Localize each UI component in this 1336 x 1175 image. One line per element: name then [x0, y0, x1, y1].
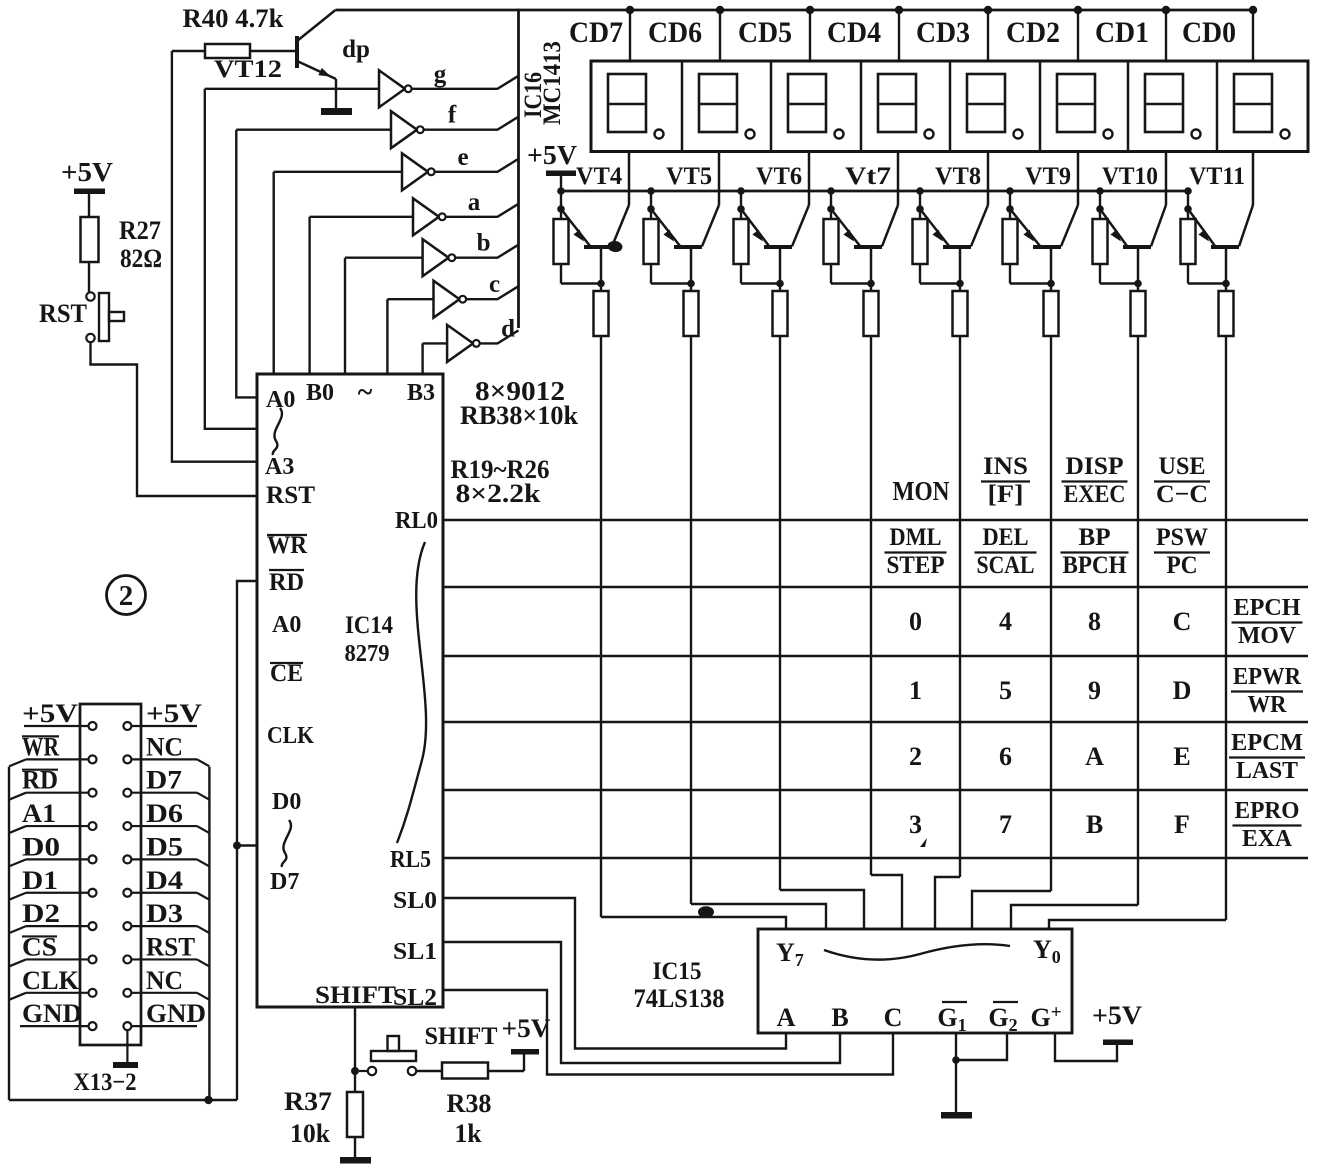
svg-text:BPCH: BPCH [1063, 552, 1128, 579]
node rail dot VT5 [647, 187, 655, 195]
svg-text:WR: WR [1248, 692, 1288, 718]
node rail dot VT4 [557, 187, 565, 195]
svg-text:SHIFT: SHIFT [315, 982, 396, 1009]
wire drop to display CD2 [1077, 10, 1079, 61]
connector pin right GND [123, 1022, 131, 1030]
svg-text:c: c [489, 271, 500, 298]
wire pin RST [131, 958, 197, 960]
svg-text:g: g [434, 61, 447, 88]
svg-text:LAST: LAST [1236, 758, 1298, 784]
wire output of b to bus [455, 245, 518, 258]
svg-text:CD5: CD5 [738, 16, 792, 49]
seven-segment digit of CD1 [1145, 74, 1183, 132]
svg-text:CD0: CD0 [1182, 16, 1236, 49]
node emitter junction VT10 [1096, 205, 1104, 213]
svg-text:B0: B0 [306, 380, 334, 406]
svg-text:+5V: +5V [1092, 1001, 1142, 1030]
wire riser B3 to d [421, 343, 423, 374]
svg-text:NC: NC [146, 732, 183, 761]
svg-text:D2: D2 [22, 899, 60, 928]
svg-text:MON: MON [893, 476, 950, 506]
node rail dot VT9 [1006, 187, 1014, 195]
connector pin right D6 [123, 822, 131, 830]
pin label RD (overline) [269, 569, 304, 596]
wire pin WR [26, 758, 89, 760]
wire pin CS [26, 958, 89, 960]
resistor R20 2.2k series base resistor VT5 [684, 284, 699, 337]
svg-text:EPCM: EPCM [1231, 730, 1303, 756]
wire emitter node VT4 [560, 191, 562, 209]
wire keyboard row RL3 [443, 721, 1308, 724]
svg-text:CD2: CD2 [1006, 16, 1060, 49]
svg-text:DEL: DEL [983, 524, 1029, 551]
wire riser to e [273, 172, 275, 374]
transistor VT9 9012 PNP [1010, 152, 1078, 284]
resistor R22 2.2k series base resistor Vt7 [864, 284, 879, 337]
node rail junction above CD5 [806, 6, 814, 14]
display cell separator [1127, 61, 1130, 152]
ground below G1 G2 [941, 1112, 972, 1119]
node rail junction above CD1 [1162, 6, 1170, 14]
wire cable bundle bottom [9, 1099, 237, 1101]
wire input of e [274, 171, 402, 173]
wire pin GND [20, 1025, 89, 1027]
connector pin right D4 [123, 889, 131, 897]
display cell separator [681, 61, 684, 152]
wire keyboard row RL1 [443, 586, 1308, 589]
squiggle A0..A3 [273, 408, 282, 455]
svg-text:BP: BP [1079, 524, 1111, 551]
svg-text:CD3: CD3 [916, 16, 970, 49]
resistor R25 2.2k series base resistor VT10 [1131, 284, 1146, 337]
wire cable entry left D1 [9, 893, 26, 900]
svg-text:SL1: SL1 [393, 939, 437, 965]
seven-segment digit of CD5 [788, 74, 826, 132]
resistor RB38 10k pullup for VT5 [644, 209, 692, 284]
svg-text:A: A [777, 1003, 796, 1032]
decimal point of CD2 [1104, 130, 1113, 139]
node base junction VT6 [776, 280, 784, 288]
svg-text:USE: USE [1159, 453, 1206, 480]
key EPCH/MOV [1232, 595, 1303, 649]
label R37 10k [284, 1087, 332, 1148]
wire keyboard row RL5 [443, 857, 1308, 860]
resistor RB38 10k pullup for VT10 [1093, 209, 1139, 284]
inverter driver g (IC16) [379, 70, 412, 107]
svg-text:EXA: EXA [1242, 826, 1293, 852]
connector pin left +5V [89, 722, 97, 730]
wire segment bus vertical [517, 9, 520, 328]
node rail dot VT11 [1184, 187, 1192, 195]
wire pin RD [26, 792, 89, 794]
display module outer box [591, 61, 1308, 152]
label R19~R26 8x2.2k [451, 455, 550, 508]
wire drop to display CD3 [987, 10, 989, 61]
seven-segment digit of CD4 [878, 74, 916, 132]
connector pin left A1 [89, 822, 97, 830]
svg-text:CLK: CLK [22, 966, 80, 995]
svg-text:D: D [1173, 676, 1192, 705]
node rail dot VT6 [737, 187, 745, 195]
wire drop to display CD7 [629, 10, 631, 61]
key DEL/SCAL [975, 524, 1037, 579]
svg-text:B: B [1086, 810, 1103, 839]
resistor R24 2.2k series base resistor VT9 [1044, 284, 1059, 337]
svg-text:8×2.2k: 8×2.2k [456, 479, 542, 508]
wire pin D6 [131, 825, 197, 827]
svg-text:X13−2: X13−2 [74, 1069, 137, 1096]
svg-text:3: 3 [909, 810, 922, 839]
decimal point of CD4 [925, 130, 934, 139]
svg-text:SHIFT: SHIFT [425, 1023, 498, 1050]
label 8x9012 RB38x10k [460, 376, 579, 430]
wire cable entry left CS [9, 959, 26, 966]
connector pin right RST [123, 955, 131, 963]
+5V supply for R38 [502, 1014, 551, 1055]
wire keyboard/scan column 6 from VT10 [1137, 336, 1139, 905]
transistor VT5 9012 PNP [651, 152, 719, 284]
wire G+ to +5V [1055, 1033, 1117, 1061]
label GND left [22, 999, 82, 1028]
wire emitter node VT10 [1099, 191, 1101, 209]
svg-text:74LS138: 74LS138 [634, 984, 725, 1013]
pin label CE (overline) [270, 660, 303, 687]
ink blob artifact on Y7 wire [698, 906, 714, 918]
svg-text:~: ~ [358, 377, 373, 408]
svg-text:1: 1 [909, 676, 922, 705]
IC15 74LS138 decoder box [758, 929, 1072, 1033]
wire cable entry right NC [197, 993, 209, 1000]
svg-text:dp: dp [342, 36, 370, 63]
pin label G2 (overline) [988, 1002, 1018, 1035]
node emitter junction VT6 [737, 205, 745, 213]
squiggle RL0..RL5 [397, 542, 426, 843]
inverter driver f (IC16) [391, 111, 424, 148]
transistor Vt7 9012 PNP [831, 152, 898, 284]
svg-text:R27: R27 [119, 216, 161, 245]
wire pin A1 [26, 825, 89, 827]
wire cable bundle left [8, 767, 10, 1100]
wire pin D1 [26, 892, 89, 894]
seven-segment digit of CD7 [608, 74, 646, 132]
svg-text:D0: D0 [272, 789, 301, 815]
svg-text:8279: 8279 [345, 641, 390, 667]
wire cable entry left D2 [9, 926, 26, 933]
decimal point of CD0 [1281, 130, 1290, 139]
wire drop to display CD5 [809, 10, 811, 61]
wire input of b [345, 257, 423, 259]
wire cable entry right D7 [197, 793, 209, 800]
svg-text:E: E [1173, 742, 1190, 771]
pushbutton RST [86, 292, 124, 342]
resistor R19 2.2k series base resistor VT4 [594, 284, 609, 337]
svg-text:A1: A1 [22, 799, 56, 828]
wire input of a [310, 216, 413, 218]
wire scan column 5 to Y2 of 74LS138 [972, 891, 1051, 929]
svg-text:e: e [457, 144, 468, 171]
wire scan column 7 to Y0 of 74LS138 [1049, 920, 1226, 929]
resistor RB38 10k pullup for VT11 [1181, 209, 1227, 284]
wire riser A0 to f input [236, 130, 257, 398]
resistor R38 1k [416, 1053, 524, 1079]
node base junction VT5 [687, 280, 695, 288]
svg-text:d: d [501, 315, 515, 342]
svg-text:STEP: STEP [887, 552, 945, 579]
ground below R37 [340, 1157, 371, 1164]
label IC14 8279 [345, 612, 394, 667]
svg-text:7: 7 [999, 810, 1012, 839]
transistor VT11 9012 PNP [1188, 152, 1253, 284]
node base junction VT9 [1047, 280, 1055, 288]
transistor VT10 9012 PNP [1100, 152, 1166, 284]
svg-text:+5V: +5V [61, 157, 114, 187]
label +5V left [22, 699, 78, 728]
wire emitter node VT11 [1187, 191, 1189, 209]
wire dp bus top rail [336, 9, 1254, 12]
wire cable entry right D4 [197, 893, 209, 900]
wire keyboard/scan column 1 from VT5 [690, 336, 692, 904]
svg-text:0: 0 [909, 607, 922, 636]
display cell separator [860, 61, 863, 152]
svg-text:D6: D6 [146, 799, 183, 828]
resistor R21 2.2k series base resistor VT6 [773, 284, 788, 337]
transistor VT6 9012 PNP [741, 152, 809, 284]
svg-text:B3: B3 [407, 380, 435, 406]
wire scan column 2 to Y5 of 74LS138 [780, 890, 864, 929]
wire output of f to bus [424, 117, 519, 130]
key EPRO/EXA [1233, 798, 1302, 852]
wire riser A3 to R40 [172, 51, 257, 462]
key USE/C-C [1154, 453, 1210, 508]
svg-text:8: 8 [1088, 607, 1101, 636]
svg-text:EXEC: EXEC [1064, 481, 1126, 508]
resistor R27 82ohm [81, 217, 99, 292]
wire scan column 3 to Y4 of 74LS138 [871, 875, 902, 929]
ground below connector [113, 1062, 138, 1068]
svg-text:RD: RD [269, 569, 304, 596]
svg-text:VT10: VT10 [1102, 163, 1158, 190]
connector pin right D7 [123, 789, 131, 797]
svg-text:SL0: SL0 [393, 888, 437, 914]
wire pin NC [131, 992, 197, 994]
svg-text:CD7: CD7 [569, 16, 623, 49]
svg-text:EPCH: EPCH [1234, 595, 1301, 621]
wire cable entry left A1 [9, 826, 26, 833]
svg-text:EPRO: EPRO [1235, 798, 1300, 824]
connector pin left D1 [89, 889, 97, 897]
svg-text:VT11: VT11 [1189, 163, 1245, 190]
svg-text:Vt7: Vt7 [845, 163, 891, 190]
svg-text:RL5: RL5 [390, 847, 431, 873]
resistor RB38 10k pullup for VT6 [734, 209, 781, 284]
node base junction VT4 [597, 280, 605, 288]
svg-text:VT5: VT5 [666, 163, 712, 190]
key DISP/EXEC [1062, 453, 1128, 508]
inverter driver d (IC16) [447, 325, 480, 362]
seven-segment digit of CD0 [1234, 74, 1272, 132]
wire SL0 to A [443, 898, 786, 1049]
wire output of e to bus [435, 159, 519, 172]
wire pin +5V [24, 725, 89, 727]
svg-text:R38: R38 [447, 1089, 492, 1118]
wire SL2 to C [443, 990, 893, 1075]
label CLK left [22, 966, 80, 995]
svg-text:IC15: IC15 [653, 958, 702, 985]
+5V supply for display drivers [527, 140, 578, 191]
node base junction VT11 [1222, 280, 1230, 288]
svg-text:GND: GND [22, 999, 82, 1028]
resistor RB38 10k pullup for VT8 [913, 209, 961, 284]
connector pin right D3 [123, 922, 131, 930]
connector pin right NC [123, 755, 131, 763]
figure number circled 2 [107, 576, 146, 615]
wire G1 to ground [955, 1033, 957, 1060]
svg-text:2: 2 [119, 580, 134, 612]
wire pin D3 [131, 925, 197, 927]
label A1 left [22, 799, 56, 828]
wire output of a to bus [446, 204, 519, 217]
pin label WR (overline) [267, 532, 308, 559]
svg-text:MOV: MOV [1238, 623, 1297, 649]
connector pin right D5 [123, 855, 131, 863]
wire keyboard row RL2 [443, 655, 1308, 658]
squiggle Y7..Y0 [824, 944, 1010, 959]
wire riser A1 to g input [205, 89, 257, 429]
node rail dot VT10 [1096, 187, 1104, 195]
svg-text:VT9: VT9 [1025, 163, 1071, 190]
wire keyboard/scan column 7 from VT11 [1225, 336, 1227, 920]
wire input of g [205, 88, 379, 90]
resistor R26 2.2k series base resistor VT11 [1219, 284, 1234, 337]
node emitter junction VT8 [916, 205, 924, 213]
wire drop to display CD4 [898, 10, 900, 61]
label CS left [22, 932, 57, 961]
+5V supply for RST [61, 157, 114, 217]
svg-text:D3: D3 [146, 899, 183, 928]
inverter driver b (IC16) [423, 239, 456, 276]
svg-text:CD1: CD1 [1095, 16, 1149, 49]
svg-text:DISP: DISP [1066, 453, 1124, 480]
svg-text:C: C [884, 1003, 903, 1032]
ground below VT12 [321, 108, 352, 115]
wire input of f [236, 128, 391, 130]
wire keyboard/scan column 4 from VT8 [959, 336, 961, 877]
svg-text:RST: RST [39, 299, 87, 328]
inverter driver a (IC16) [413, 198, 446, 235]
node cable junction [204, 1096, 212, 1104]
wire G2 to G1 [956, 1033, 1007, 1060]
node SHIFT junction [351, 1067, 359, 1075]
connector pin left D2 [89, 922, 97, 930]
svg-text:F: F [1174, 810, 1190, 839]
wire drop to display CD0 [1252, 10, 1254, 61]
inverter driver c (IC16) [434, 281, 467, 318]
wire drop to display CD1 [1165, 10, 1167, 61]
display cell separator [1039, 61, 1042, 152]
connector pin left GND [89, 1022, 97, 1030]
wire SL1 to B [443, 942, 840, 1063]
resistor R23 2.2k series base resistor VT8 [953, 284, 968, 337]
resistor RB38 10k pullup for Vt7 [824, 209, 872, 284]
key DML/STEP [885, 524, 947, 579]
connector pin left RD [89, 789, 97, 797]
label IC15 74LS138 [634, 958, 725, 1013]
decimal point of CD7 [655, 130, 664, 139]
resistor R37 10k [347, 1071, 363, 1158]
node rail junction above CD7 [626, 6, 634, 14]
svg-text:2: 2 [909, 742, 922, 771]
svg-text:+5V: +5V [22, 699, 78, 728]
wire emitter node VT6 [740, 191, 742, 209]
svg-text:MC1413: MC1413 [539, 41, 566, 125]
wire VT12 emitter to ground [335, 79, 337, 108]
label WR left [22, 732, 59, 761]
wire RST switch to 8279 RST pin [91, 342, 258, 496]
wire pin D5 [131, 858, 197, 860]
resistor RB38 10k pullup for VT4 [554, 209, 602, 284]
node rail dot Vt7 [827, 187, 835, 195]
svg-text:C: C [1173, 607, 1192, 636]
svg-text:82Ω: 82Ω [120, 244, 162, 273]
resistor R40 4.7k [172, 4, 296, 58]
transistor VT12 [297, 10, 336, 79]
connector pin right NC [123, 989, 131, 997]
wire keyboard/scan column 3 from Vt7 [870, 336, 872, 875]
node emitter junction VT5 [647, 205, 655, 213]
wire output of c to bus [466, 286, 518, 299]
svg-text:SL2: SL2 [393, 985, 437, 1011]
svg-text:D7: D7 [270, 869, 299, 895]
svg-text:a: a [468, 189, 481, 216]
svg-text:VT6: VT6 [756, 163, 802, 190]
wire cable entry right D6 [197, 826, 209, 833]
wire pin +5V [131, 725, 197, 727]
svg-text:DML: DML [890, 524, 942, 551]
svg-text:D7: D7 [146, 766, 182, 795]
wire pin D4 [131, 892, 197, 894]
node base junction VT10 [1134, 280, 1142, 288]
svg-text:D0: D0 [22, 832, 60, 861]
label R38 1k [447, 1089, 492, 1148]
wire pin D0 [26, 858, 89, 860]
display cell separator [1216, 61, 1219, 152]
wire output of d to bus [480, 330, 519, 343]
decimal point of CD3 [1014, 130, 1023, 139]
ink blob artifact near VT4 collector [607, 240, 623, 253]
node rail dot VT8 [916, 187, 924, 195]
svg-text:5: 5 [999, 676, 1012, 705]
connector X13-2 body [80, 704, 141, 1045]
node rail junction above CD3 [984, 6, 992, 14]
svg-text:VT12: VT12 [214, 56, 282, 83]
wire junction to ground [955, 1060, 957, 1113]
wire emitter node Vt7 [830, 191, 832, 209]
wire keyboard/scan column 0 from VT4 [600, 336, 602, 917]
connector pin left CLK [89, 989, 97, 997]
label R27 82 [119, 216, 162, 273]
wire riser B0 to a [308, 217, 310, 374]
svg-text:INS: INS [983, 453, 1028, 480]
svg-text:IC14: IC14 [345, 612, 393, 639]
key PSW/PC [1154, 524, 1210, 579]
svg-text:EPWR: EPWR [1233, 664, 1302, 690]
node emitter junction VT4 [557, 205, 565, 213]
wire input of d [423, 342, 448, 344]
svg-text:b: b [477, 230, 491, 257]
wire keyboard/scan column 5 from VT9 [1050, 336, 1052, 891]
svg-text:A0: A0 [272, 612, 301, 638]
key BP/BPCH [1061, 524, 1129, 579]
